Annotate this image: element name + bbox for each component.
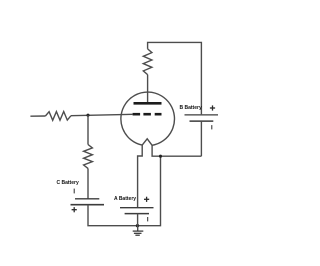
resistor R1 input series <box>45 112 71 121</box>
wire bottom rail right <box>137 156 160 226</box>
grid (dashed) <box>133 113 162 116</box>
resistor R3 plate load <box>143 49 152 75</box>
wire plate lead <box>147 75 149 104</box>
wire top horizontal (plate to B battery) <box>148 42 202 114</box>
node cathode junction <box>159 155 162 158</box>
battery C positive plate (long) <box>71 204 105 206</box>
wire filament left leg <box>138 145 143 208</box>
node grid junction <box>86 114 89 117</box>
wire resistor to grid <box>71 114 133 115</box>
label A battery <box>114 196 136 202</box>
battery B negative plate (short) <box>190 120 214 122</box>
wire A battery to ground node <box>137 214 139 226</box>
resistor R2 grid bias <box>84 145 93 169</box>
triode tube V1 envelope <box>121 92 175 145</box>
battery A negative plate (short) <box>125 213 149 215</box>
minus sign A battery <box>147 217 149 221</box>
wire R2 to C battery <box>87 168 89 198</box>
wire grid line left <box>30 115 45 117</box>
plate (anode) bar <box>134 102 162 105</box>
minus sign B battery <box>211 125 213 129</box>
battery A positive plate (long) <box>120 207 154 209</box>
plus sign C battery <box>72 207 77 212</box>
wire B battery bottom lead <box>200 121 202 156</box>
label C battery <box>57 180 79 186</box>
minus sign C battery <box>73 189 75 194</box>
battery C negative plate (short) <box>75 198 99 200</box>
ground symbol <box>133 226 144 236</box>
plus sign B battery <box>210 105 215 110</box>
label B battery <box>180 105 202 111</box>
wire C battery to bottom rail <box>88 205 137 226</box>
wire filament right leg <box>152 145 201 156</box>
battery B positive plate (long) <box>185 114 219 116</box>
filament heater <box>142 139 152 146</box>
plus sign A battery <box>144 197 149 202</box>
node ground junction <box>136 224 139 227</box>
wire junction down to R2 <box>87 115 89 144</box>
